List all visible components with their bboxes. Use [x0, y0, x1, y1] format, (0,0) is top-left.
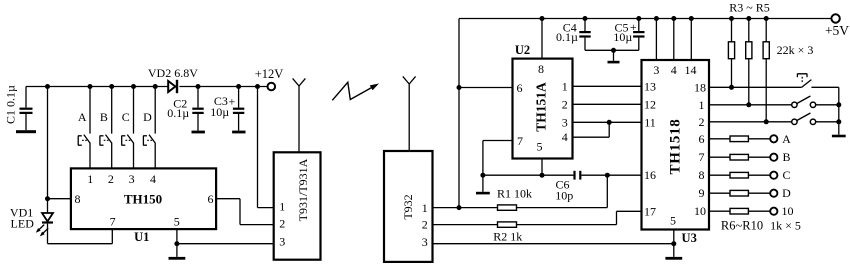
- label 10: [782, 204, 794, 218]
- pin 5: [670, 214, 676, 228]
- label C6: [555, 178, 569, 192]
- switch A: [78, 135, 90, 169]
- switch S3: [792, 113, 816, 125]
- pin 4: [671, 63, 677, 77]
- wire: [89, 87, 91, 134]
- wire: [573, 85, 642, 87]
- pin 17: [644, 204, 656, 218]
- wire: [585, 49, 639, 51]
- diode VD2: [168, 80, 178, 93]
- LED VD1: [36, 213, 53, 244]
- svg-text:4: 4: [562, 130, 568, 144]
- node C6 right: [605, 173, 610, 178]
- wire: [573, 103, 642, 105]
- wire: [581, 174, 641, 176]
- svg-text:3: 3: [129, 172, 135, 186]
- ground: [169, 244, 186, 260]
- capacitor C3: [233, 87, 244, 131]
- wire: [573, 121, 642, 123]
- svg-text:4: 4: [671, 63, 677, 77]
- capacitor C4: [579, 19, 590, 51]
- pin 2: [108, 172, 114, 186]
- pin 2: [699, 115, 705, 129]
- resistor R5: [763, 42, 769, 59]
- pin 1: [562, 79, 568, 93]
- pin 7: [517, 134, 523, 148]
- IC T931/T931A box: [274, 152, 321, 259]
- wire: [433, 207, 498, 209]
- pin 6: [699, 132, 705, 146]
- node switch D: [153, 84, 158, 89]
- wire: [483, 141, 513, 176]
- wire: [26, 86, 168, 88]
- IC T932 box: [384, 151, 433, 262]
- wire: [709, 174, 730, 176]
- svg-text:B: B: [782, 150, 790, 164]
- RF arrow: [332, 82, 379, 100]
- node sw rail: [836, 102, 841, 107]
- ground: [476, 175, 490, 194]
- node U2 pin6: [457, 85, 462, 90]
- wire: [111, 229, 113, 244]
- pin 5: [537, 140, 543, 154]
- svg-text:5: 5: [670, 214, 676, 228]
- wire: [111, 87, 113, 134]
- node R5 bottom: [764, 119, 769, 124]
- wire: [816, 121, 839, 123]
- svg-text:3: 3: [562, 115, 568, 129]
- svg-text:5: 5: [174, 215, 180, 229]
- antenna: [403, 76, 416, 151]
- svg-text:1: 1: [562, 79, 568, 93]
- wire: [48, 243, 113, 245]
- pin 12: [644, 97, 656, 111]
- svg-text:A: A: [782, 132, 791, 146]
- wire: [517, 211, 642, 224]
- svg-text:10µ: 10µ: [613, 30, 632, 44]
- svg-text:5: 5: [537, 140, 543, 154]
- wire: [673, 19, 675, 61]
- switch B: [100, 135, 112, 169]
- pin 3: [279, 235, 285, 249]
- pin 13: [644, 79, 656, 93]
- pin 6: [208, 192, 214, 206]
- svg-text:10: 10: [694, 204, 706, 218]
- svg-text:2: 2: [699, 115, 705, 129]
- svg-text:2: 2: [279, 217, 285, 231]
- label TH151A: [533, 82, 548, 132]
- pin 1: [422, 201, 428, 215]
- pin 1: [87, 172, 93, 186]
- wire: [709, 104, 792, 106]
- pin 4: [562, 130, 568, 144]
- wire: [748, 174, 770, 176]
- switch C: [121, 135, 133, 169]
- wire: [709, 156, 730, 158]
- ground: [665, 244, 682, 260]
- switch S2: [792, 96, 816, 108]
- svg-text:TH151A: TH151A: [533, 82, 548, 132]
- svg-text:R6~R10: R6~R10: [721, 218, 763, 232]
- svg-text:8: 8: [75, 192, 81, 206]
- node sw rail: [836, 119, 841, 124]
- wire: [133, 87, 135, 134]
- label R3~R5: [729, 1, 770, 15]
- label 10p: [555, 188, 573, 202]
- svg-text:A: A: [78, 110, 87, 124]
- pin 7: [699, 150, 705, 164]
- label T931/T931A: [296, 158, 310, 221]
- wire: [458, 19, 460, 208]
- label TH1518: [668, 119, 684, 175]
- svg-text:10µ: 10µ: [210, 105, 229, 119]
- wire: [541, 159, 543, 176]
- resistor R10: [730, 208, 748, 214]
- svg-text:6: 6: [517, 81, 523, 95]
- pin 3: [653, 63, 659, 77]
- terminal B: [770, 154, 777, 161]
- wire: [748, 192, 770, 194]
- wire: [709, 210, 730, 212]
- pin 2: [422, 218, 428, 232]
- label 22k×3: [777, 43, 814, 57]
- svg-text:3: 3: [279, 235, 285, 249]
- svg-text:C: C: [782, 168, 790, 182]
- wire: [179, 86, 267, 88]
- svg-text:11: 11: [644, 115, 656, 129]
- wire: [731, 59, 733, 88]
- svg-text:6: 6: [208, 192, 214, 206]
- wire: [433, 224, 498, 226]
- pin 8: [699, 168, 705, 182]
- label +12V: [255, 67, 284, 81]
- label 10µ: [613, 30, 632, 44]
- switch D: [143, 135, 155, 169]
- svg-text:12: 12: [644, 97, 656, 111]
- ground: [608, 50, 620, 63]
- svg-text:10p: 10p: [555, 188, 573, 202]
- node pin8 rail: [540, 16, 545, 21]
- svg-text:+12V: +12V: [255, 67, 284, 81]
- node U3 pin5 gnd: [671, 241, 676, 246]
- svg-text:16: 16: [644, 168, 656, 182]
- resistor R3: [728, 42, 734, 59]
- wire: [838, 87, 840, 134]
- label C5: [614, 20, 628, 34]
- node pin5: [540, 173, 545, 178]
- label U1: [134, 230, 149, 244]
- svg-text:0.1µ: 0.1µ: [556, 30, 578, 44]
- svg-text:22k × 3: 22k × 3: [777, 43, 814, 57]
- svg-text:18: 18: [694, 80, 706, 94]
- svg-text:13: 13: [644, 79, 656, 93]
- wire: [748, 156, 770, 158]
- label 10µ: [210, 105, 229, 119]
- node R3 bottom: [729, 85, 734, 90]
- svg-text:4: 4: [150, 172, 156, 186]
- wire: [459, 87, 513, 89]
- pin 2: [562, 97, 568, 111]
- wire: [748, 210, 770, 212]
- node pin14 rail: [689, 16, 694, 21]
- label C2: [173, 96, 187, 110]
- pin 1: [279, 199, 285, 213]
- IC U3 TH1518 box: [642, 60, 710, 230]
- wire: [748, 19, 750, 42]
- label C1 0.1µ: [4, 85, 18, 124]
- node C2: [196, 84, 201, 89]
- label U3: [682, 231, 697, 245]
- wire: [765, 59, 767, 122]
- pin 3: [562, 115, 568, 129]
- svg-text:TH1518: TH1518: [668, 119, 684, 175]
- wire: [709, 138, 730, 140]
- wire: [765, 19, 767, 42]
- label R2 1k: [493, 229, 522, 243]
- resistor R9: [730, 190, 748, 196]
- ground C3: [232, 131, 245, 134]
- node switch A: [88, 84, 93, 89]
- terminal +12V: [268, 83, 276, 91]
- node R5 rail: [764, 16, 769, 21]
- node switch C: [131, 84, 136, 89]
- wire: [216, 199, 274, 225]
- svg-text:U3: U3: [682, 231, 697, 245]
- wire: [673, 230, 675, 244]
- svg-text:R2 1k: R2 1k: [493, 229, 522, 243]
- label D: [143, 110, 152, 124]
- wire: [433, 243, 674, 245]
- resistor R7: [730, 154, 748, 160]
- pin 14: [685, 63, 697, 77]
- capacitor C6: [573, 171, 581, 180]
- wire: [541, 19, 543, 59]
- svg-text:3: 3: [653, 63, 659, 77]
- svg-text:R3 ~ R5: R3 ~ R5: [729, 1, 770, 15]
- svg-text:2: 2: [562, 97, 568, 111]
- pin 9: [699, 186, 705, 200]
- wire: [709, 121, 792, 123]
- node pin3 rail: [654, 16, 659, 21]
- pin 10: [694, 204, 706, 218]
- svg-text:VD2 6.8V: VD2 6.8V: [148, 66, 198, 80]
- wire: [47, 87, 49, 214]
- pin 7: [110, 215, 116, 229]
- wire: [690, 19, 692, 61]
- node R4 rail: [746, 16, 751, 21]
- label A: [78, 110, 87, 124]
- label C3: [214, 94, 228, 108]
- pin 1: [699, 98, 705, 112]
- pin 2: [279, 217, 285, 231]
- svg-text:+5V: +5V: [825, 23, 849, 38]
- label +: [630, 20, 637, 34]
- node pin7 gnd: [480, 173, 485, 178]
- terminal D: [770, 190, 777, 197]
- capacitor C5: [633, 19, 644, 51]
- wire: [811, 86, 838, 88]
- svg-text:9: 9: [699, 186, 705, 200]
- wire: [517, 207, 608, 209]
- label +: [229, 94, 236, 108]
- svg-text:T931/T931A: T931/T931A: [296, 158, 310, 221]
- label T932: [401, 194, 415, 219]
- node C4: [583, 16, 588, 21]
- svg-text:2: 2: [108, 172, 114, 186]
- wire: [709, 192, 730, 194]
- label D: [782, 186, 791, 200]
- svg-text:D: D: [782, 186, 791, 200]
- node pin8: [45, 196, 50, 201]
- svg-text:10: 10: [782, 204, 794, 218]
- antenna: [293, 78, 306, 152]
- wire: [731, 19, 733, 42]
- svg-text:8: 8: [538, 62, 544, 76]
- terminal 10: [770, 208, 777, 215]
- svg-text:1k × 5: 1k × 5: [770, 218, 801, 232]
- wire: [258, 87, 274, 208]
- svg-text:+: +: [229, 94, 236, 108]
- pin 8: [538, 62, 544, 76]
- svg-text:R1 10k: R1 10k: [497, 187, 532, 201]
- svg-text:LED: LED: [11, 217, 35, 231]
- label R6~R10: [721, 218, 763, 232]
- svg-text:B: B: [100, 110, 108, 124]
- svg-text:TH150: TH150: [124, 191, 162, 206]
- pin 16: [644, 168, 656, 182]
- IC U1 TH150 box: [71, 168, 216, 229]
- resistor R1: [498, 205, 517, 210]
- pin 3: [129, 172, 135, 186]
- node switch B: [109, 84, 114, 89]
- wire: [483, 174, 574, 176]
- terminal A: [770, 135, 777, 142]
- terminal C: [770, 172, 777, 179]
- svg-text:T932: T932: [401, 194, 415, 219]
- wire: [748, 59, 750, 105]
- resistor R8: [730, 172, 748, 178]
- wire: [573, 122, 610, 137]
- pin 6: [517, 81, 523, 95]
- node pin5: [174, 241, 179, 246]
- wire: [459, 18, 831, 20]
- wire: [176, 229, 178, 244]
- node LED branch: [45, 84, 50, 89]
- node C3: [236, 84, 241, 89]
- label 1k×5: [770, 218, 801, 232]
- svg-text:1: 1: [422, 201, 428, 215]
- label C: [122, 110, 130, 124]
- capacitor C2: [192, 87, 203, 131]
- label 0.1µ: [556, 30, 578, 44]
- svg-text:1: 1: [279, 199, 285, 213]
- switch S1 pushbutton: [797, 74, 811, 88]
- svg-text:3: 3: [422, 235, 428, 249]
- label VD1: [10, 206, 33, 220]
- svg-text:D: D: [143, 110, 152, 124]
- label C: [782, 168, 790, 182]
- label LED: [11, 217, 35, 231]
- node C5: [636, 16, 641, 21]
- ground C2: [192, 131, 205, 134]
- pin 18: [694, 80, 706, 94]
- node pin3-4 tie: [607, 120, 612, 125]
- svg-text:17: 17: [644, 204, 656, 218]
- svg-text:U2: U2: [515, 43, 530, 57]
- svg-text:8: 8: [699, 168, 705, 182]
- label U2: [515, 43, 530, 57]
- svg-text:7: 7: [517, 134, 523, 148]
- svg-text:1: 1: [87, 172, 93, 186]
- node R3 rail: [729, 16, 734, 21]
- resistor R2: [498, 222, 517, 227]
- svg-text:14: 14: [685, 63, 697, 77]
- svg-text:C: C: [122, 110, 130, 124]
- label A: [782, 132, 791, 146]
- label VD2 6.8V: [148, 66, 198, 80]
- capacitor C1: [16, 87, 36, 134]
- svg-text:6: 6: [699, 132, 705, 146]
- node C4C5 gnd: [611, 48, 616, 53]
- resistor R4: [746, 42, 752, 59]
- svg-text:7: 7: [110, 215, 116, 229]
- wire: [655, 19, 657, 61]
- label R1 10k: [497, 187, 532, 201]
- svg-text:U1: U1: [134, 230, 149, 244]
- pin 4: [150, 172, 156, 186]
- label B: [782, 150, 790, 164]
- wire: [177, 243, 274, 245]
- node V+ branch: [255, 84, 260, 89]
- terminal +5V: [831, 14, 839, 22]
- svg-text:C1 0.1µ: C1 0.1µ: [4, 85, 18, 124]
- node R1 node: [457, 205, 462, 210]
- IC U2 TH151A box: [513, 59, 573, 159]
- wire: [816, 104, 839, 106]
- pin 8: [75, 192, 81, 206]
- pin 5: [174, 215, 180, 229]
- wire: [48, 198, 71, 200]
- pin 3: [422, 235, 428, 249]
- wire: [748, 138, 770, 140]
- label 0.1µ: [167, 106, 189, 120]
- node R4 bottom: [746, 102, 751, 107]
- label B: [100, 110, 108, 124]
- svg-text:1: 1: [699, 98, 705, 112]
- node pin4 rail: [671, 16, 676, 21]
- wire: [154, 87, 156, 134]
- label TH150: [124, 191, 162, 206]
- wire: [606, 175, 608, 207]
- wire: [709, 86, 802, 88]
- pin 11: [644, 115, 656, 129]
- label C4: [563, 20, 577, 34]
- label +5V: [825, 23, 849, 38]
- ground: [832, 135, 846, 138]
- resistor R6: [730, 136, 748, 142]
- svg-text:0.1µ: 0.1µ: [167, 106, 189, 120]
- svg-text:7: 7: [699, 150, 705, 164]
- svg-text:2: 2: [422, 218, 428, 232]
